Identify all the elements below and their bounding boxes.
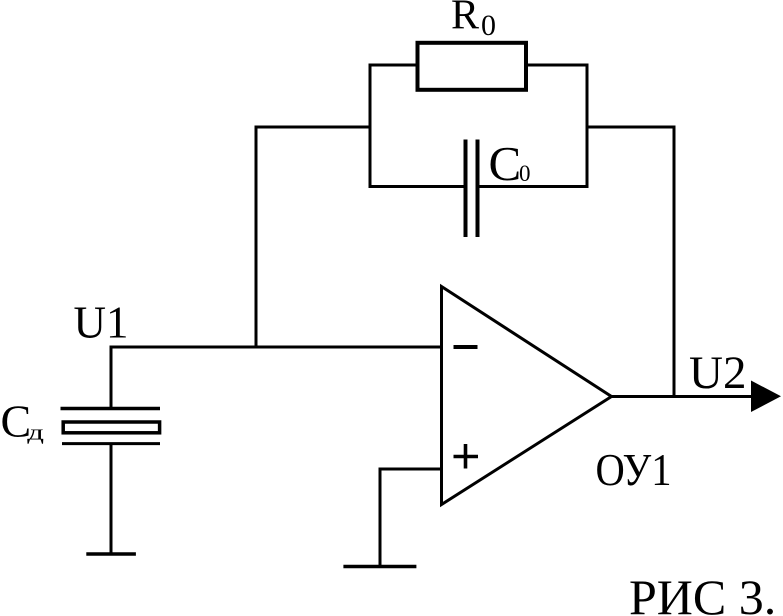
svg-text:C: C: [489, 136, 522, 191]
wire: Cd lower vertical to ground: [110, 444, 113, 554]
svg-text:U2: U2: [689, 347, 746, 399]
wire: parallel box right vertical: [586, 64, 589, 189]
wire: box top, left of resistor: [369, 64, 420, 67]
capacitor C0 right plate: [476, 140, 480, 238]
capacitor Cd top plate: [61, 407, 161, 411]
svg-text:д: д: [27, 421, 44, 445]
wire: non-inverting input horizontal: [379, 468, 442, 471]
wire: feedback riser up from inverting input node: [255, 126, 258, 349]
wire: Cd upper vertical from U1 node: [110, 346, 113, 411]
capacitor Cd body rectangle: [63, 422, 159, 433]
wire: left feedback horizontal to parallel box: [255, 126, 372, 129]
wire: inverting input horizontal from U1 node to op-amp: [110, 346, 442, 349]
wire: box bottom, left of C0: [369, 185, 464, 188]
svg-text:0: 0: [481, 9, 496, 42]
capacitor Cd bottom plate: [62, 442, 160, 445]
op-amp U1 triangle: [442, 287, 612, 505]
wire: box top, right of resistor: [525, 64, 589, 67]
wire: non-inverting vertical to ground: [379, 468, 382, 567]
svg-text:ОУ1: ОУ1: [596, 445, 672, 495]
output arrowhead: [751, 381, 781, 413]
svg-text:R: R: [451, 0, 479, 39]
ground bar under Cd: [86, 552, 136, 556]
wire: parallel box left vertical: [369, 64, 372, 189]
wire: right feedback horizontal from box to output branch: [586, 126, 676, 129]
svg-text:РИС 3.: РИС 3.: [629, 569, 776, 616]
wire: box bottom, right of C0: [480, 185, 589, 188]
capacitor C0 left plate: [464, 140, 468, 238]
svg-text:0: 0: [519, 161, 531, 186]
wire: output feedback vertical: [673, 126, 676, 397]
minus sign at inverting input: [454, 345, 478, 349]
plus sign at non-inverting input: [454, 455, 479, 459]
wire: output horizontal: [610, 395, 752, 398]
resistor R0: [418, 43, 527, 90]
svg-text:U1: U1: [74, 298, 129, 348]
ground bar at non-inverting input: [343, 565, 416, 569]
